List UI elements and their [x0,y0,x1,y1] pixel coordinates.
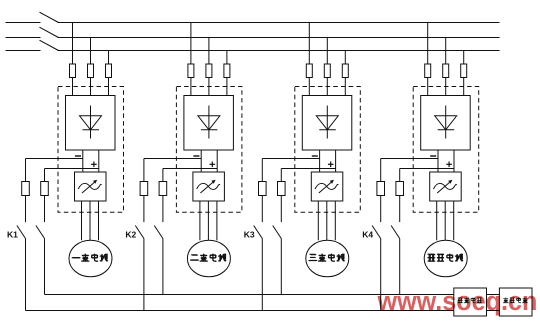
variable-frequency symbol inside U3B [315,180,338,193]
wire: column 2 upper unit 2 [162,169,164,223]
label: motor M4 name [428,254,464,262]
wire: phase L1 bus [58,22,500,24]
wire: column 2 lower unit 3 to upper bus [280,239,282,295]
wire: motor phase 3 unit 4 [453,201,455,240]
svg-text:www.soeq.cn: www.soeq.cn [377,287,538,316]
wire: motor phase 3 unit 3 [334,201,336,240]
thyristor symbol inside U4A [435,106,457,139]
wire: column 2 upper unit 3 [280,169,282,223]
fuse FU23 [224,64,230,78]
fuse FU42 [443,64,449,78]
variable-frequency symbol inside U1B [78,180,101,193]
wire: phase L2 tap unit 4 [445,38,447,65]
label: plus polarity unit 4 [446,162,452,168]
fuse F4b [396,182,404,196]
label: plus polarity unit 2 [210,162,216,168]
thyristor symbol inside U3A [316,106,338,139]
switch K3 blade a [254,226,263,239]
label: plus polarity unit 3 [328,162,334,168]
wire: column 1 upper unit 2 [143,159,145,223]
switch K4 blade b [391,226,400,239]
wire: phase L3 tap unit 1 [108,51,110,65]
dashed enclosure: drive unit 4 [413,87,479,213]
fuse F3a [259,182,267,196]
wire: phase L3 left segment [6,50,41,52]
fuse F3b [278,182,286,196]
label: braking unit text [458,298,482,304]
wire: motor phase 2 unit 4 [444,201,446,240]
wire: DC positive link unit 3 [335,150,337,172]
disconnect switch QS blade L2 [40,27,59,37]
fuse F2b [159,182,167,196]
wire: motor phase 3 unit 1 [98,201,100,240]
fuse F1b [41,182,49,196]
wire: DC positive link unit 4 [453,150,455,172]
wire: motor phase 2 unit 2 [207,201,209,240]
wire: DC upper bus (+) [45,294,454,296]
dashed enclosure: drive unit 3 [295,87,361,213]
wire: negative feeder unit 2 [144,158,201,160]
box: braking unit cabinet [454,288,487,316]
wire: positive feeder unit 2 [163,168,217,170]
dashed enclosure: drive unit 2 [176,87,242,213]
wire: DC negative link unit 3 [319,150,321,172]
wire: fuse FU23 to rectifier [226,78,228,96]
variable-frequency symbol inside U2B [197,180,220,193]
wire: DC positive link unit 1 [98,150,100,172]
fuse FU41 [425,64,431,78]
inverter box U4B [430,172,462,201]
wire: fuse FU43 to rectifier [463,78,465,96]
inverter box U2B [193,172,225,201]
wire: column 1 lower unit 3 to bottom bus [261,239,263,311]
wire: motor phase 2 unit 1 [89,201,91,240]
wire: phase L1 left segment [6,22,41,24]
svg-text:K1: K1 [7,230,18,240]
motor M3 [306,240,349,277]
wire: negative feeder unit 3 [262,158,319,160]
wire: fuse FU32 to rectifier [326,78,328,96]
fuse FU11 [70,64,76,78]
wire: motor phase 1 unit 1 [81,201,83,240]
motor M2 [187,240,230,277]
wire: fuse FU33 to rectifier [344,78,346,96]
wire: positive feeder unit 3 [281,168,335,170]
wire: DC lower bus (-) [26,310,500,312]
wire: column 2 lower unit 1 to upper bus [44,239,46,295]
disconnect switch QS blade L3 [40,40,59,50]
label: minus polarity unit 4 [430,155,436,157]
wire: phase L1 tap unit 3 [308,23,310,65]
fuse FU13 [106,64,112,78]
wire: DC positive link unit 2 [216,150,218,172]
wire: negative feeder unit 4 [381,158,438,160]
disconnect switch QS blade L1 [40,12,59,22]
thyristor symbol inside U1A [80,106,102,139]
wire: phase L2 left segment [6,37,41,39]
label: minus polarity unit 3 [312,155,318,157]
wire: fuse FU13 to rectifier [108,78,110,96]
wire: fuse FU41 to rectifier [427,78,429,96]
rectifier box U1A [66,96,116,151]
fuse FU12 [88,64,94,78]
wire: fuse FU12 to rectifier [90,78,92,96]
wire: column 1 lower unit 2 to bottom bus [143,239,145,311]
switch K1 blade b [36,226,45,239]
fuse FU43 [461,64,467,78]
wire: DC negative link unit 4 [437,150,439,172]
fuse FU31 [306,64,312,78]
switch K1 blade a [17,226,26,239]
label: braking resistor text [503,298,528,304]
wire: column 2 lower unit 4 to upper bus [399,239,401,295]
fuse F4a [377,182,385,196]
wire: bus link between cabinets [487,294,500,296]
fuse FU22 [206,64,212,78]
wire: motor phase 1 unit 4 [436,201,438,240]
wire: motor phase 1 unit 2 [199,201,201,240]
label: motor M1 name [72,254,108,262]
wire: phase L1 tap unit 2 [190,23,192,65]
label: motor M3 name [309,254,345,262]
wire: phase L3 tap unit 3 [344,51,346,65]
box: braking resistor cabinet [499,288,532,316]
rectifier box U2A [184,96,234,151]
fuse F2a [140,182,148,196]
wire: fuse FU31 to rectifier [308,78,310,96]
svg-text:K4: K4 [362,230,373,240]
wire: column 1 lower unit 4 to bottom bus [380,239,382,311]
switch K2 blade b [154,226,163,239]
wire: negative feeder unit 1 [26,158,83,160]
inverter box U3B [311,172,343,201]
wire: phase L2 tap unit 2 [208,38,210,65]
wire: column 2 upper unit 1 [44,169,46,223]
label: minus polarity unit 1 [75,155,81,157]
fuse FU21 [188,64,194,78]
fuse FU33 [342,64,348,78]
wire: phase L3 tap unit 4 [463,51,465,65]
fuse F1a [22,182,30,196]
svg-text:K2: K2 [125,230,136,240]
wire: positive feeder unit 4 [400,168,454,170]
rectifier box U3A [302,96,352,151]
wire: column 2 lower unit 2 to upper bus [162,239,164,295]
wire: motor phase 3 unit 2 [216,201,218,240]
rectifier box U4A [421,96,471,151]
wire: DC negative link unit 1 [82,150,84,172]
wire: phase L2 tap unit 1 [90,38,92,65]
wire: motor phase 1 unit 3 [317,201,319,240]
wire: phase L1 tap unit 4 [427,23,429,65]
wire: phase L2 tap unit 3 [326,38,328,65]
wire: phase L3 bus [58,50,500,52]
wire: column 1 upper unit 3 [261,159,263,223]
label: minus polarity unit 2 [193,155,199,157]
label: plus polarity unit 1 [91,162,97,168]
switch K4 blade a [372,226,381,239]
dashed enclosure: drive unit 1 [58,87,124,213]
wire: fuse FU42 to rectifier [445,78,447,96]
wire: phase L1 tap unit 1 [72,23,74,65]
fuse FU32 [324,64,330,78]
motor M4 [424,240,467,277]
wire: DC negative link unit 2 [200,150,202,172]
wire: column 1 upper unit 4 [380,159,382,223]
variable-frequency symbol inside U4B [434,180,457,193]
wire: column 2 upper unit 4 [399,169,401,223]
wire: fuse FU11 to rectifier [72,78,74,96]
svg-text:K3: K3 [244,230,255,240]
wire: column 1 lower unit 1 to bottom bus [25,239,27,311]
wire: motor phase 2 unit 3 [326,201,328,240]
wire: fuse FU21 to rectifier [190,78,192,96]
wire: phase L3 tap unit 2 [226,51,228,65]
wire: column 1 upper unit 1 [25,159,27,223]
label: motor M2 name [190,254,226,262]
wire: fuse FU22 to rectifier [208,78,210,96]
wire: phase L2 bus [58,37,500,39]
inverter box U1B [75,172,107,201]
switch K2 blade a [135,226,144,239]
wire: positive feeder unit 1 [45,168,99,170]
switch K3 blade b [273,226,282,239]
thyristor symbol inside U2A [198,106,220,139]
motor M1 [69,240,112,277]
